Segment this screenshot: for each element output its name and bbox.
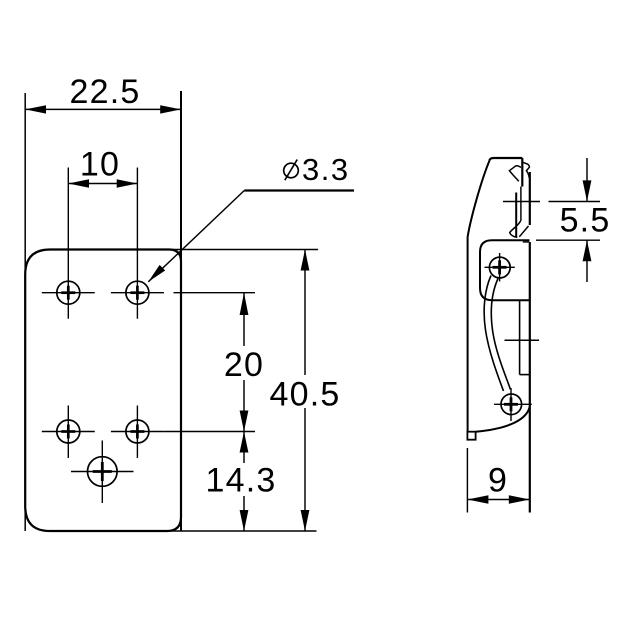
dim line 20 upper segment: [243, 293, 245, 346]
arrow 5.5 down: [583, 180, 592, 201]
hole A1 (top-left): [57, 281, 80, 304]
dim line 22.5: [25, 108, 181, 110]
dim line 9: [467, 499, 529, 501]
spring arm right edge: [491, 279, 510, 390]
row2 extension to dim 20/14.3: [164, 431, 255, 433]
arrow 10 right: [117, 179, 138, 187]
svg-text:10: 10: [80, 146, 120, 184]
dim line 20 lower segment: [243, 380, 245, 432]
hole B1 crosshair: [42, 431, 95, 433]
side bottom-left notch square: [467, 432, 475, 440]
side lower hole crosshair: [494, 403, 532, 405]
arrow 20 up: [240, 293, 249, 315]
side upper hole: [489, 257, 510, 278]
side lower body top edge: [480, 240, 530, 300]
side lower hole: [501, 394, 522, 415]
upper beak right zigzag: [523, 162, 529, 177]
front view plate outline: [25, 250, 181, 532]
hook crosshair horizontal: [503, 201, 540, 203]
dim line 5.5 upper: [586, 158, 588, 201]
hole A1 crosshair: [42, 292, 95, 294]
arrow 14.3 up: [240, 432, 249, 453]
hole A2 (top-right): [126, 281, 149, 304]
svg-text:22.5: 22.5: [70, 73, 141, 111]
svg-text:3.3: 3.3: [302, 152, 350, 187]
hole A2 crosshair: [111, 292, 164, 294]
hook inner vertical thin: [520, 187, 522, 222]
svg-text:20: 20: [224, 346, 264, 384]
dim 5.5 upper extension: [549, 201, 601, 203]
arrow 10 left: [68, 179, 89, 187]
leader underline: [244, 189, 354, 191]
extension line 10-right / hole col2 centerline: [136, 168, 138, 319]
dim 5.5 lower extension: [536, 239, 600, 241]
lower right step ledge: [523, 241, 530, 243]
arrow 20 down: [240, 411, 249, 432]
extension line 10-left / hole col1 centerline: [67, 168, 69, 319]
top edge extension (40.5): [170, 249, 318, 251]
side top edge: [490, 158, 523, 161]
hook inner vertical thick: [515, 193, 517, 238]
hole C crosshair: [71, 471, 134, 473]
text dia symbol circle: [284, 163, 299, 178]
row1 extension to dim 20: [174, 292, 256, 294]
arrow 40.5 up: [301, 250, 310, 271]
arrow 40.5 down: [301, 510, 310, 531]
svg-text:14.3: 14.3: [206, 462, 277, 500]
arrow 9 left: [467, 495, 488, 504]
dim line 40.5 lower segment: [304, 408, 306, 531]
side crosshair mid: [505, 339, 540, 341]
dim 9 left extension: [466, 448, 468, 513]
arrow 9 right: [509, 495, 530, 504]
arrow 14.3 down: [240, 510, 249, 531]
side slot bottom: [520, 374, 530, 376]
side right edge lower: [529, 242, 531, 513]
hole B2 (bottom-right): [126, 420, 149, 443]
leader diagonal: [148, 191, 244, 282]
hole B1 (bottom-left): [57, 420, 80, 443]
lower beak right diagonal: [519, 226, 528, 237]
arrow 22.5 left: [25, 105, 46, 113]
dim line 14.3 upper segment: [243, 432, 245, 464]
dim line 40.5 upper segment: [304, 250, 306, 376]
bottom edge extension (40.5/14.3): [160, 530, 317, 532]
side left edge: [467, 237, 469, 432]
hole B2 crosshair: [111, 431, 164, 433]
dim line 5.5 lower: [586, 240, 588, 282]
svg-text:5.5: 5.5: [560, 202, 611, 240]
side slot vertical: [519, 301, 521, 375]
extension line right (22.5 / plate right edge): [180, 91, 182, 531]
dim line 10: [68, 183, 137, 185]
leader arrowhead: [148, 265, 165, 282]
svg-text:9: 9: [488, 462, 508, 500]
lower beak left loop: [510, 221, 521, 237]
arrow 5.5 up: [583, 240, 592, 261]
dim line 14.3 lower segment: [243, 496, 245, 531]
upper beak left heart: [509, 166, 521, 182]
side left slant edge: [468, 161, 490, 238]
extension line left (22.5): [24, 93, 26, 531]
hole C center big: [88, 457, 118, 487]
side bottom curve: [476, 407, 530, 432]
svg-text:40.5: 40.5: [270, 376, 341, 414]
spring arm left edge: [484, 276, 503, 392]
side right vertical at top (thick): [521, 158, 523, 187]
side right edge upper: [529, 172, 531, 225]
text dia symbol slash: [285, 160, 297, 181]
side upper hole crosshair: [485, 266, 515, 268]
arrow 22.5 right: [160, 105, 181, 113]
